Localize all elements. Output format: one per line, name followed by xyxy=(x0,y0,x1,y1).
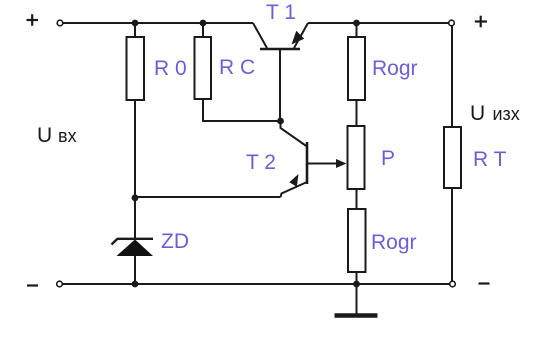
node dot RC top xyxy=(200,20,207,27)
svg-text:T 2: T 2 xyxy=(246,151,276,174)
svg-text:Uизх: Uизх xyxy=(470,102,520,125)
node B dot (RC/T1 base/T2 collector) xyxy=(277,118,284,125)
wire RC top lead xyxy=(202,23,204,37)
wire top rail right (T1 emitter to output +) xyxy=(308,22,449,24)
wire Rogr1 top lead xyxy=(356,23,358,37)
svg-text:R C: R C xyxy=(219,56,255,79)
node dot R0 top xyxy=(132,20,139,27)
svg-text:P: P xyxy=(381,147,395,170)
wire top rail left (input + to T1 collector) xyxy=(63,22,253,24)
resistor Rogr2 (lower) xyxy=(348,209,366,272)
wire bottom rail xyxy=(62,283,450,285)
svg-text:T 1: T 1 xyxy=(266,1,296,24)
wire Rogr2 bottom to rail xyxy=(356,272,358,284)
terminal circle output - xyxy=(450,281,456,287)
plus sign input xyxy=(27,14,39,26)
wire RT bottom to output - terminal xyxy=(451,188,453,281)
svg-text:Rogr: Rogr xyxy=(371,231,417,254)
terminal circle input + xyxy=(57,20,63,26)
node dot Rogr1 top xyxy=(353,20,360,27)
svg-text:R T: R T xyxy=(473,148,507,171)
ground xyxy=(335,284,378,316)
plus sign output xyxy=(475,16,487,28)
zener diode ZD cathode bar with bent end xyxy=(112,239,154,245)
wire node A horizontal to T2 emitter xyxy=(135,196,281,198)
wire output + down to RT top xyxy=(451,26,453,127)
zener diode ZD triangle (anode, pointing up) xyxy=(117,240,154,257)
svg-text:R 0: R 0 xyxy=(154,57,187,80)
wire R0 bottom to node A xyxy=(134,100,136,198)
terminal circle input - xyxy=(57,281,63,287)
wire R0 top lead xyxy=(134,23,136,37)
wire P bottom to Rogr2 top xyxy=(356,189,358,209)
transistor T2 emitter arrow (PNP, points toward base bar) xyxy=(289,174,298,187)
svg-text:Rogr: Rogr xyxy=(372,57,418,80)
transistor T2 xyxy=(281,122,341,197)
node A dot (R0/zener/T2 emitter) xyxy=(132,194,139,201)
svg-text:Uвх: Uвх xyxy=(37,124,77,147)
resistor Rogr1 (upper) xyxy=(348,37,365,100)
minus sign input xyxy=(27,284,38,286)
node dot ground rail xyxy=(353,281,360,288)
wire Rogr1 bottom to P top xyxy=(356,100,358,126)
transistor T1 xyxy=(253,23,308,49)
resistor RC xyxy=(195,37,212,99)
wire zener top lead xyxy=(134,197,136,240)
transistor T1 emitter arrow (PNP, points toward base bar) xyxy=(292,31,305,45)
wire RC bottom elbow to node B xyxy=(203,99,280,121)
resistor R0 xyxy=(127,37,145,100)
minus sign output xyxy=(479,282,490,284)
wire T1 base down to node B xyxy=(279,50,281,121)
potentiometer P body xyxy=(348,126,365,189)
resistor RT xyxy=(444,127,461,188)
wire zener bottom lead xyxy=(134,254,136,284)
terminal circle output + xyxy=(449,20,455,26)
node dot zener bottom rail xyxy=(132,281,139,288)
svg-text:ZD: ZD xyxy=(161,230,189,253)
potentiometer wiper arrowhead xyxy=(336,159,347,168)
